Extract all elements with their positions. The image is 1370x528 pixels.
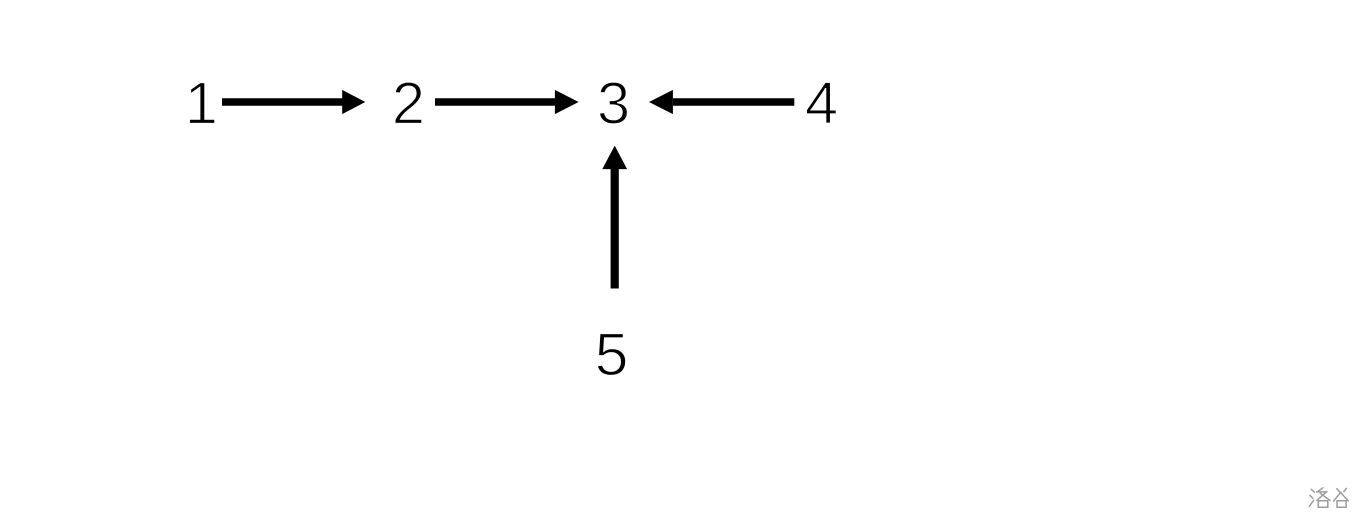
谷 person right stroke (1340, 492, 1348, 501)
edge 2->3 arrow (435, 90, 579, 114)
谷 top-right stroke (1344, 488, 1347, 491)
洛 water-radical dot 2 (1310, 495, 1313, 498)
edge 1->2 arrow (222, 90, 365, 114)
洛 right part 夂 horizontal-bend stroke (1317, 492, 1327, 500)
svg-text:2: 2 (392, 70, 425, 137)
洛 right part 夂 top left-falling stroke (1318, 488, 1323, 492)
svg-text:5: 5 (595, 320, 629, 388)
洛 mouth box (1318, 501, 1328, 508)
谷 top-left stroke (1337, 489, 1340, 492)
svg-text:3: 3 (597, 70, 630, 137)
洛 right part 夂 long press stroke (1320, 493, 1330, 500)
edge 5->3 arrow (602, 146, 627, 289)
谷 mouth box (1337, 501, 1346, 508)
洛 water-radical rising stroke (1309, 500, 1314, 506)
svg-text:1: 1 (185, 70, 218, 137)
edge 4->3 arrow (649, 90, 794, 114)
svg-text:4: 4 (805, 70, 838, 137)
谷 person left stroke (1334, 492, 1341, 501)
watermark 洛谷 (1309, 488, 1348, 508)
洛 water-radical dot 1 (1311, 489, 1314, 492)
